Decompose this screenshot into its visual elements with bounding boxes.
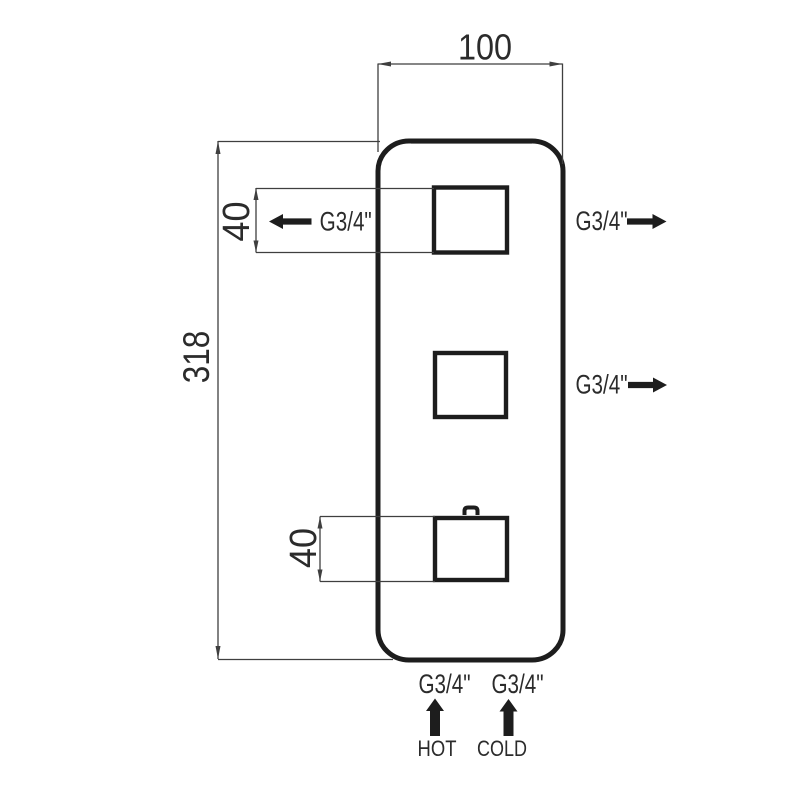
label G3/4" hot inlet (418, 670, 470, 700)
dimension 40 top extension top (256, 188, 434, 190)
dimension label 100 (458, 28, 512, 68)
dimension 40 top extension bottom (256, 252, 434, 254)
dimension 318 arrowhead top (216, 141, 221, 154)
dimension label 318 (177, 331, 218, 383)
inlet arrow cold (thick, up) (500, 699, 518, 736)
dimension 100 extension line right (562, 64, 564, 165)
dimension 318 extension line bottom (218, 659, 393, 661)
dimension 40 bottom extension top (320, 516, 435, 518)
control square 2 (middle) (435, 353, 506, 417)
svg-text:40: 40 (281, 528, 324, 568)
svg-text:G3/4": G3/4" (418, 670, 470, 700)
dimension 318 line (217, 141, 219, 659)
dimension 40 bottom extension bottom (320, 581, 435, 583)
label G3/4" right lower (575, 370, 627, 400)
svg-text:COLD: COLD (477, 737, 527, 761)
dimension 100 extension line left (377, 64, 379, 153)
index tab on square 3 (465, 508, 478, 516)
dimension 40 bottom arrowhead up (318, 517, 323, 529)
svg-text:100: 100 (458, 28, 512, 68)
label G3/4" left (320, 207, 372, 237)
outlet arrow right lower (thick) (628, 378, 667, 393)
dimension label 40 bottom (281, 528, 324, 568)
dimension 100 arrowhead right (550, 62, 563, 67)
dimension 40 bottom arrowhead down (318, 570, 323, 582)
svg-text:318: 318 (177, 331, 218, 383)
label G3/4" right upper (575, 207, 627, 237)
label COLD (477, 737, 527, 761)
valve body (rounded rectangle outline) (378, 139, 563, 660)
svg-text:G3/4": G3/4" (575, 207, 627, 237)
dimension 318 arrowhead bottom (216, 646, 221, 659)
outlet arrow right upper (thick) (627, 214, 667, 229)
dimension 100 arrowhead left (378, 62, 391, 67)
svg-text:HOT: HOT (418, 736, 457, 761)
svg-text:G3/4": G3/4" (575, 370, 627, 400)
label HOT (418, 736, 457, 761)
svg-text:40: 40 (214, 201, 257, 241)
svg-text:G3/4": G3/4" (491, 670, 543, 700)
control square 1 (top) (434, 188, 507, 253)
dimension 318 extension line top (218, 141, 380, 143)
label G3/4" cold inlet (491, 670, 543, 700)
dimension 40 top: line (255, 188, 257, 253)
control square 3 (bottom) (435, 518, 507, 580)
dimension 40 top arrowhead up (254, 188, 259, 200)
dimension 40 top arrowhead down (254, 241, 259, 253)
outlet arrow left (thick) (269, 214, 312, 229)
dimension 40 bottom: line (319, 517, 321, 582)
svg-text:G3/4": G3/4" (320, 207, 372, 237)
dimension 100 line (378, 63, 563, 65)
dimension label 40 top (214, 201, 257, 241)
inlet arrow hot (thick, up) (426, 699, 444, 737)
